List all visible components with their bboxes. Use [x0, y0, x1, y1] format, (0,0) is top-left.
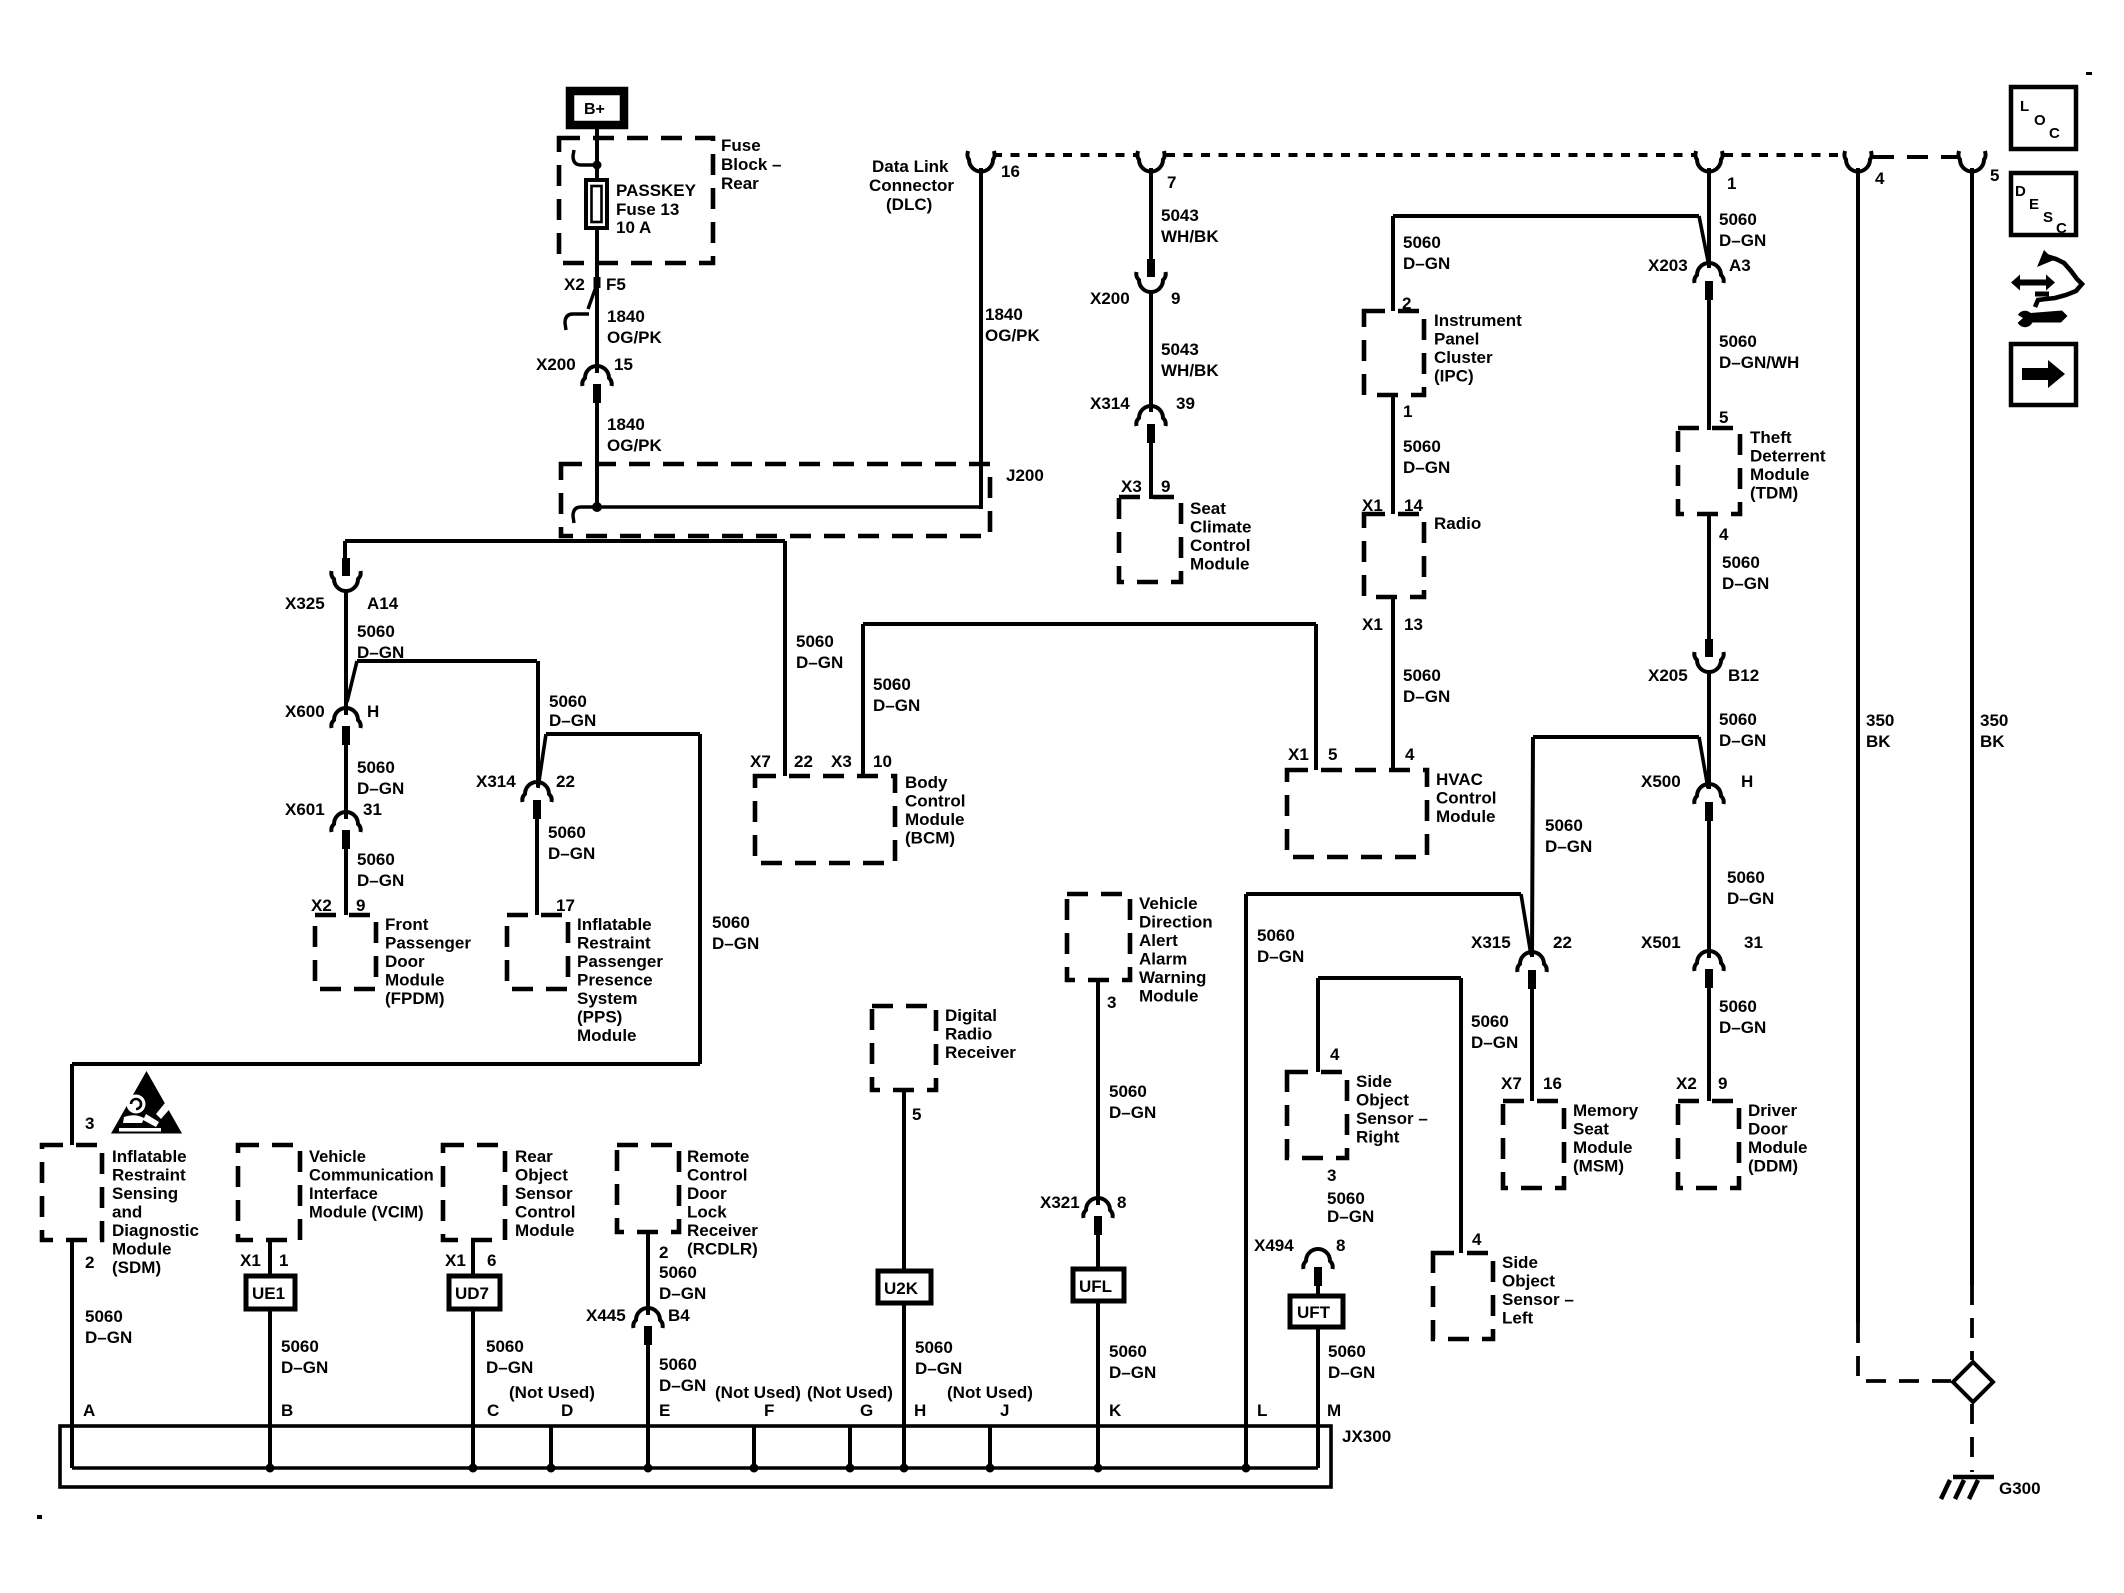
svg-text:3: 3 — [1327, 1166, 1336, 1185]
svg-text:OG/PK: OG/PK — [985, 326, 1041, 345]
svg-text:X494: X494 — [1254, 1236, 1294, 1255]
svg-text:J200: J200 — [1006, 466, 1044, 485]
svg-text:Module: Module — [577, 1026, 637, 1045]
svg-text:5060: 5060 — [659, 1355, 697, 1374]
svg-text:5060: 5060 — [548, 823, 586, 842]
svg-text:(IPC): (IPC) — [1434, 367, 1474, 386]
svg-text:3: 3 — [85, 1114, 94, 1133]
svg-text:Sensor –: Sensor – — [1502, 1290, 1574, 1309]
svg-text:16: 16 — [1543, 1074, 1562, 1093]
svg-text:OG/PK: OG/PK — [607, 436, 663, 455]
svg-text:Theft: Theft — [1750, 428, 1792, 447]
svg-text:5060: 5060 — [281, 1337, 319, 1356]
svg-text:H: H — [914, 1401, 926, 1420]
svg-text:Rear: Rear — [721, 174, 759, 193]
svg-text:UD7: UD7 — [455, 1284, 489, 1303]
svg-text:A: A — [83, 1401, 95, 1420]
svg-text:10 A: 10 A — [616, 218, 651, 237]
svg-text:Control: Control — [1190, 536, 1250, 555]
svg-text:A3: A3 — [1729, 256, 1751, 275]
svg-text:5060: 5060 — [915, 1338, 953, 1357]
svg-text:Body: Body — [905, 773, 948, 792]
svg-text:D–GN: D–GN — [1719, 1018, 1766, 1037]
svg-text:5060: 5060 — [659, 1263, 697, 1282]
svg-text:Data Link: Data Link — [872, 157, 949, 176]
svg-text:D–GN: D–GN — [85, 1328, 132, 1347]
svg-text:5: 5 — [912, 1105, 921, 1124]
svg-text:X315: X315 — [1471, 933, 1511, 952]
svg-text:J: J — [1000, 1401, 1009, 1420]
svg-text:X3: X3 — [1121, 477, 1142, 496]
svg-text:4: 4 — [1472, 1230, 1482, 1249]
svg-text:17: 17 — [556, 896, 575, 915]
svg-text:1: 1 — [279, 1251, 288, 1270]
svg-text:Remote: Remote — [687, 1147, 749, 1166]
svg-text:9: 9 — [1171, 289, 1180, 308]
svg-text:Fuse 13: Fuse 13 — [616, 200, 679, 219]
svg-text:5060: 5060 — [85, 1307, 123, 1326]
svg-text:Side: Side — [1356, 1072, 1392, 1091]
svg-text:Rear: Rear — [515, 1147, 553, 1166]
svg-text:OG/PK: OG/PK — [607, 328, 663, 347]
svg-text:Interface: Interface — [309, 1185, 378, 1203]
svg-text:B4: B4 — [668, 1306, 690, 1325]
svg-text:Climate: Climate — [1190, 518, 1251, 537]
svg-text:Instrument: Instrument — [1434, 311, 1522, 330]
svg-text:(Not Used): (Not Used) — [807, 1383, 893, 1402]
svg-text:M: M — [1327, 1401, 1341, 1420]
svg-text:Front: Front — [385, 915, 429, 934]
svg-text:Module: Module — [905, 810, 965, 829]
svg-text:5060: 5060 — [1719, 332, 1757, 351]
svg-text:D–GN: D–GN — [915, 1359, 962, 1378]
svg-text:1840: 1840 — [985, 305, 1023, 324]
svg-text:7: 7 — [1167, 173, 1176, 192]
svg-text:X601: X601 — [285, 800, 325, 819]
svg-text:Object: Object — [515, 1166, 568, 1185]
svg-text:Control: Control — [687, 1166, 747, 1185]
svg-text:5060: 5060 — [549, 692, 587, 711]
svg-text:1: 1 — [1727, 174, 1736, 193]
svg-text:Seat: Seat — [1190, 499, 1226, 518]
svg-text:X7: X7 — [1501, 1074, 1522, 1093]
svg-text:D–GN: D–GN — [1403, 254, 1450, 273]
svg-text:Door: Door — [385, 952, 425, 971]
svg-text:Block –: Block – — [721, 155, 781, 174]
svg-text:Door: Door — [687, 1184, 727, 1203]
svg-text:Module: Module — [1750, 465, 1810, 484]
svg-text:Seat: Seat — [1573, 1120, 1609, 1139]
svg-text:(DLC): (DLC) — [886, 195, 932, 214]
svg-text:1: 1 — [1403, 402, 1412, 421]
svg-text:X314: X314 — [1090, 394, 1130, 413]
svg-text:9: 9 — [1161, 477, 1170, 496]
svg-text:5060: 5060 — [796, 632, 834, 651]
svg-text:5: 5 — [1990, 166, 1999, 185]
svg-text:A14: A14 — [367, 594, 399, 613]
svg-text:(BCM): (BCM) — [905, 829, 955, 848]
svg-text:UFT: UFT — [1297, 1303, 1331, 1322]
svg-text:5060: 5060 — [1719, 997, 1757, 1016]
svg-text:5060: 5060 — [1257, 926, 1295, 945]
svg-text:BK: BK — [1866, 732, 1891, 751]
svg-text:B12: B12 — [1728, 666, 1759, 685]
svg-text:Object: Object — [1356, 1091, 1409, 1110]
svg-text:Vehicle: Vehicle — [309, 1148, 366, 1166]
svg-text:2: 2 — [659, 1243, 668, 1262]
svg-text:4: 4 — [1875, 169, 1885, 188]
svg-text:UE1: UE1 — [252, 1284, 285, 1303]
svg-text:Warning: Warning — [1139, 968, 1206, 987]
svg-text:Sensing: Sensing — [112, 1184, 178, 1203]
svg-text:D: D — [2015, 183, 2026, 200]
svg-text:X314: X314 — [476, 772, 516, 791]
svg-text:Presence: Presence — [577, 971, 653, 990]
svg-text:Direction: Direction — [1139, 913, 1213, 932]
svg-text:D: D — [561, 1401, 573, 1420]
svg-text:350: 350 — [1866, 711, 1894, 730]
svg-text:(DDM): (DDM) — [1748, 1157, 1798, 1176]
svg-text:D–GN: D–GN — [1471, 1033, 1518, 1052]
svg-text:22: 22 — [1553, 933, 1572, 952]
svg-text:4: 4 — [1719, 525, 1729, 544]
svg-text:D–GN: D–GN — [1403, 687, 1450, 706]
svg-text:Diagnostic: Diagnostic — [112, 1221, 199, 1240]
svg-text:5060: 5060 — [1719, 210, 1757, 229]
svg-text:D–GN: D–GN — [873, 696, 920, 715]
svg-text:Radio: Radio — [945, 1025, 992, 1044]
svg-text:Control: Control — [905, 792, 965, 811]
svg-text:WH/BK: WH/BK — [1161, 361, 1219, 380]
svg-text:X2: X2 — [311, 896, 332, 915]
svg-text:F5: F5 — [606, 275, 626, 294]
svg-text:D–GN: D–GN — [1328, 1363, 1375, 1382]
svg-text:5060: 5060 — [1403, 233, 1441, 252]
svg-text:5060: 5060 — [1327, 1189, 1365, 1208]
svg-text:X600: X600 — [285, 702, 325, 721]
svg-text:Control: Control — [515, 1203, 575, 1222]
svg-text:U2K: U2K — [884, 1279, 919, 1298]
svg-text:Object: Object — [1502, 1272, 1555, 1291]
svg-text:D–GN: D–GN — [659, 1376, 706, 1395]
svg-text:C: C — [2049, 125, 2060, 142]
svg-text:E: E — [2029, 196, 2039, 213]
svg-text:5060: 5060 — [1471, 1012, 1509, 1031]
svg-text:(Not Used): (Not Used) — [509, 1383, 595, 1402]
svg-text:1840: 1840 — [607, 307, 645, 326]
svg-text:X2: X2 — [564, 275, 585, 294]
svg-text:5060: 5060 — [1403, 666, 1441, 685]
svg-text:H: H — [367, 702, 379, 721]
svg-text:Receiver: Receiver — [687, 1221, 758, 1240]
svg-text:Module: Module — [1748, 1138, 1808, 1157]
svg-text:Restraint: Restraint — [112, 1166, 186, 1185]
svg-text:C: C — [2056, 220, 2067, 237]
svg-text:X200: X200 — [1090, 289, 1130, 308]
svg-text:9: 9 — [1718, 1074, 1727, 1093]
svg-text:Vehicle: Vehicle — [1139, 894, 1198, 913]
svg-text:31: 31 — [363, 800, 382, 819]
svg-text:5060: 5060 — [357, 622, 395, 641]
svg-text:Radio: Radio — [1434, 514, 1481, 533]
svg-text:X1: X1 — [1362, 615, 1383, 634]
svg-text:9: 9 — [356, 896, 365, 915]
svg-text:(Not Used): (Not Used) — [947, 1383, 1033, 1402]
svg-text:F: F — [764, 1401, 774, 1420]
svg-text:Module: Module — [1436, 807, 1496, 826]
svg-text:5060: 5060 — [1403, 437, 1441, 456]
svg-text:Cluster: Cluster — [1434, 348, 1493, 367]
svg-text:5: 5 — [1719, 408, 1728, 427]
svg-text:D–GN: D–GN — [281, 1358, 328, 1377]
svg-text:5060: 5060 — [486, 1337, 524, 1356]
svg-text:D–GN: D–GN — [1327, 1207, 1374, 1226]
svg-text:D–GN: D–GN — [548, 844, 595, 863]
svg-text:Fuse: Fuse — [721, 136, 761, 155]
svg-text:(TDM): (TDM) — [1750, 484, 1798, 503]
svg-text:(FPDM): (FPDM) — [385, 989, 444, 1008]
svg-text:Restraint: Restraint — [577, 934, 651, 953]
svg-text:Module: Module — [1190, 555, 1250, 574]
svg-text:X200: X200 — [536, 355, 576, 374]
svg-text:UFL: UFL — [1079, 1277, 1112, 1296]
svg-text:H: H — [1741, 772, 1753, 791]
svg-text:5060: 5060 — [1722, 553, 1760, 572]
svg-text:X501: X501 — [1641, 933, 1681, 952]
svg-text:Inflatable: Inflatable — [577, 915, 652, 934]
svg-text:5060: 5060 — [1719, 710, 1757, 729]
svg-text:Right: Right — [1356, 1128, 1400, 1147]
svg-text:5060: 5060 — [1727, 868, 1765, 887]
svg-text:D–GN: D–GN — [1727, 889, 1774, 908]
svg-text:D–GN: D–GN — [1719, 731, 1766, 750]
svg-text:D–GN: D–GN — [1545, 837, 1592, 856]
svg-text:Passenger: Passenger — [385, 934, 471, 953]
svg-text:Left: Left — [1502, 1309, 1534, 1328]
svg-text:JX300: JX300 — [1342, 1427, 1391, 1446]
svg-text:8: 8 — [1117, 1193, 1126, 1212]
svg-text:Alarm: Alarm — [1139, 950, 1187, 969]
svg-text:K: K — [1109, 1401, 1122, 1420]
svg-text:5060: 5060 — [1109, 1342, 1147, 1361]
svg-text:E: E — [659, 1401, 670, 1420]
svg-text:G: G — [860, 1401, 873, 1420]
svg-text:Communication: Communication — [309, 1167, 434, 1185]
svg-text:5060: 5060 — [1328, 1342, 1366, 1361]
svg-text:PASSKEY: PASSKEY — [616, 181, 697, 200]
svg-text:L: L — [1257, 1401, 1267, 1420]
svg-text:S: S — [2043, 209, 2053, 226]
svg-text:Sensor –: Sensor – — [1356, 1109, 1428, 1128]
svg-text:D–GN: D–GN — [486, 1358, 533, 1377]
svg-text:X1: X1 — [240, 1251, 261, 1270]
svg-text:X1: X1 — [1288, 745, 1309, 764]
svg-text:X321: X321 — [1040, 1193, 1080, 1212]
svg-text:(Not Used): (Not Used) — [715, 1383, 801, 1402]
svg-text:D–GN: D–GN — [357, 871, 404, 890]
svg-text:Deterrent: Deterrent — [1750, 447, 1826, 466]
svg-text:D–GN: D–GN — [1719, 231, 1766, 250]
svg-text:Module: Module — [385, 971, 445, 990]
svg-text:D–GN: D–GN — [712, 934, 759, 953]
svg-text:X2: X2 — [1676, 1074, 1697, 1093]
svg-text:BK: BK — [1980, 732, 2005, 751]
svg-text:Module: Module — [515, 1221, 575, 1240]
svg-text:Memory: Memory — [1573, 1101, 1639, 1120]
svg-text:and: and — [112, 1203, 142, 1222]
svg-text:Module: Module — [112, 1240, 172, 1259]
svg-text:15: 15 — [614, 355, 633, 374]
svg-text:Passenger: Passenger — [577, 952, 663, 971]
svg-text:Side: Side — [1502, 1253, 1538, 1272]
svg-text:Module: Module — [1139, 987, 1199, 1006]
svg-text:Lock: Lock — [687, 1203, 727, 1222]
svg-text:D–GN: D–GN — [1109, 1363, 1156, 1382]
svg-text:5060: 5060 — [357, 850, 395, 869]
svg-text:Door: Door — [1748, 1120, 1788, 1139]
svg-text:8: 8 — [1336, 1236, 1345, 1255]
svg-text:Driver: Driver — [1748, 1101, 1798, 1120]
svg-text:L: L — [2020, 98, 2029, 115]
svg-text:5060: 5060 — [1545, 816, 1583, 835]
svg-text:350: 350 — [1980, 711, 2008, 730]
svg-text:6: 6 — [487, 1251, 496, 1270]
svg-text:B: B — [281, 1401, 293, 1420]
svg-text:4: 4 — [1330, 1045, 1340, 1064]
svg-text:31: 31 — [1744, 933, 1763, 952]
svg-text:Sensor: Sensor — [515, 1184, 573, 1203]
svg-text:5043: 5043 — [1161, 206, 1199, 225]
svg-text:10: 10 — [873, 752, 892, 771]
svg-text:5: 5 — [1328, 745, 1337, 764]
svg-text:(MSM): (MSM) — [1573, 1157, 1624, 1176]
svg-text:System: System — [577, 989, 637, 1008]
svg-text:3: 3 — [1107, 993, 1116, 1012]
svg-text:22: 22 — [794, 752, 813, 771]
svg-text:D–GN: D–GN — [659, 1284, 706, 1303]
svg-text:Alert: Alert — [1139, 931, 1178, 950]
svg-text:5043: 5043 — [1161, 340, 1199, 359]
svg-text:16: 16 — [1001, 162, 1020, 181]
svg-text:X325: X325 — [285, 594, 325, 613]
svg-text:Digital: Digital — [945, 1006, 997, 1025]
svg-text:G300: G300 — [1999, 1479, 2041, 1498]
svg-text:C: C — [487, 1401, 499, 1420]
svg-text:Receiver: Receiver — [945, 1043, 1016, 1062]
svg-text:D–GN/WH: D–GN/WH — [1719, 353, 1799, 372]
svg-text:39: 39 — [1176, 394, 1195, 413]
svg-text:Module (VCIM): Module (VCIM) — [309, 1204, 424, 1222]
svg-text:5060: 5060 — [357, 758, 395, 777]
svg-text:Inflatable: Inflatable — [112, 1147, 187, 1166]
svg-text:Connector: Connector — [869, 176, 954, 195]
svg-text:X205: X205 — [1648, 666, 1688, 685]
svg-text:D–GN: D–GN — [796, 653, 843, 672]
svg-text:2: 2 — [85, 1253, 94, 1272]
svg-text:X3: X3 — [831, 752, 852, 771]
svg-text:WH/BK: WH/BK — [1161, 227, 1219, 246]
svg-text:D–GN: D–GN — [549, 711, 596, 730]
svg-text:Module: Module — [1573, 1138, 1633, 1157]
svg-text:5060: 5060 — [873, 675, 911, 694]
svg-text:(SDM): (SDM) — [112, 1258, 161, 1277]
svg-text:Panel: Panel — [1434, 330, 1479, 349]
svg-text:D–GN: D–GN — [1403, 458, 1450, 477]
svg-text:1840: 1840 — [607, 415, 645, 434]
svg-text:X445: X445 — [586, 1306, 626, 1325]
svg-text:D–GN: D–GN — [1257, 947, 1304, 966]
svg-text:HVAC: HVAC — [1436, 770, 1483, 789]
svg-text:X7: X7 — [750, 752, 771, 771]
svg-text:Control: Control — [1436, 789, 1496, 808]
svg-text:X500: X500 — [1641, 772, 1681, 791]
svg-text:(RCDLR): (RCDLR) — [687, 1240, 758, 1259]
svg-text:X203: X203 — [1648, 256, 1688, 275]
svg-text:X1: X1 — [445, 1251, 466, 1270]
svg-text:(PPS): (PPS) — [577, 1008, 622, 1027]
svg-text:D–GN: D–GN — [357, 779, 404, 798]
svg-text:13: 13 — [1404, 615, 1423, 634]
svg-text:D–GN: D–GN — [1109, 1103, 1156, 1122]
svg-text:D–GN: D–GN — [1722, 574, 1769, 593]
svg-text:5060: 5060 — [712, 913, 750, 932]
svg-text:4: 4 — [1405, 745, 1415, 764]
svg-text:5060: 5060 — [1109, 1082, 1147, 1101]
svg-text:B+: B+ — [584, 101, 605, 118]
svg-text:22: 22 — [556, 772, 575, 791]
svg-text:O: O — [2034, 112, 2046, 129]
